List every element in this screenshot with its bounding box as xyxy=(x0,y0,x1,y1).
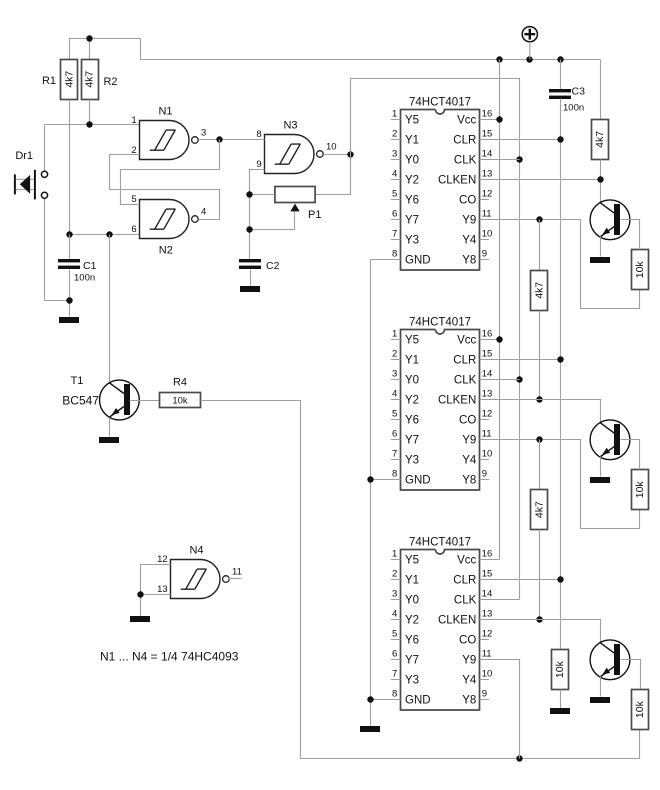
wire N2 output feedback to N1 pin 2 xyxy=(110,155,220,220)
junction CLR IC2 xyxy=(557,356,563,362)
svg-text:3: 3 xyxy=(201,128,206,139)
svg-text:Y9: Y9 xyxy=(462,215,476,227)
svg-text:15: 15 xyxy=(482,569,493,580)
svg-text:Y0: Y0 xyxy=(405,155,419,167)
svg-text:11: 11 xyxy=(482,209,492,220)
resistor 10k base Q3 xyxy=(632,690,649,730)
junction N3 output xyxy=(347,151,353,157)
wire 10k to Q2 base xyxy=(621,440,640,470)
svg-text:5: 5 xyxy=(392,629,397,640)
junction T1 collector branch xyxy=(106,231,112,237)
svg-text:R4: R4 xyxy=(173,377,187,389)
svg-text:Y1: Y1 xyxy=(405,355,419,367)
svg-text:6: 6 xyxy=(392,209,397,220)
wire P1 wiper down to RC node xyxy=(250,212,295,230)
wire Q2 emitter to ground xyxy=(600,457,602,477)
wire CLK pins to clock rail xyxy=(480,160,520,600)
wire stage rail A upper xyxy=(539,220,541,271)
svg-text:C3: C3 xyxy=(572,86,586,98)
svg-text:CLR: CLR xyxy=(453,135,476,147)
svg-text:10: 10 xyxy=(482,449,493,460)
svg-text:5: 5 xyxy=(131,194,136,205)
svg-text:12: 12 xyxy=(482,189,493,200)
junction CLKEN IC1 / Q1 collector xyxy=(597,176,603,182)
wire GND rail of ICs xyxy=(371,260,401,727)
wire N1 output feedback to N2 pin 5 xyxy=(121,140,220,205)
wire P1 left to RC node xyxy=(250,170,275,260)
ground under T1 xyxy=(99,437,119,443)
svg-text:R2: R2 xyxy=(103,76,117,88)
wire T1 collector riser xyxy=(109,235,111,383)
svg-text:N4: N4 xyxy=(189,545,203,557)
svg-text:13: 13 xyxy=(482,389,493,400)
junction GND IC3 xyxy=(367,696,373,702)
svg-text:7: 7 xyxy=(392,449,397,460)
wire CLR pulldown to ground xyxy=(560,690,562,709)
svg-text:CLK: CLK xyxy=(454,155,477,167)
svg-text:74HCT4017: 74HCT4017 xyxy=(409,97,471,109)
pushbutton Dr1 xyxy=(15,125,48,301)
svg-text:Vcc: Vcc xyxy=(457,335,476,347)
resistor 10k base Q1 xyxy=(632,250,649,290)
svg-text:13: 13 xyxy=(482,609,493,620)
wire Q3 base to 10k xyxy=(621,660,641,690)
svg-text:6: 6 xyxy=(392,649,397,660)
resistor 4k7 stage B xyxy=(531,490,548,530)
svg-text:4k7: 4k7 xyxy=(63,71,75,88)
svg-text:6: 6 xyxy=(131,224,136,235)
ground under Q1 xyxy=(590,257,610,263)
wire N1 output to N3 pin 8 xyxy=(199,139,265,141)
resistor 10k base Q2 xyxy=(632,470,649,510)
svg-text:R1: R1 xyxy=(42,75,56,87)
svg-text:CLR: CLR xyxy=(453,355,476,367)
wire R2 bottom to Dr1/N1 pin1 net xyxy=(45,100,140,125)
resistor 4k7 pullup Q1 xyxy=(592,120,609,160)
transistor Q3 xyxy=(590,640,630,680)
svg-text:GND: GND xyxy=(405,695,431,707)
wire C1 top xyxy=(69,235,71,260)
svg-text:4: 4 xyxy=(201,207,206,218)
ground under CLR pulldown xyxy=(550,708,570,714)
ground under GND rail xyxy=(360,726,380,732)
svg-text:10k: 10k xyxy=(634,700,646,718)
ground under Q2 xyxy=(590,477,610,483)
svg-text:12: 12 xyxy=(157,554,168,565)
svg-text:16: 16 xyxy=(482,549,493,560)
wire Y9 IC2 to Q2 base resistor xyxy=(480,440,640,529)
wire N4 output stub xyxy=(229,578,242,580)
svg-text:Y7: Y7 xyxy=(405,215,419,227)
svg-text:Y5: Y5 xyxy=(405,335,419,347)
wire C2 bottom to ground xyxy=(250,270,252,287)
wire clock net to CLK pins rail xyxy=(351,79,520,600)
svg-text:16: 16 xyxy=(482,329,493,340)
svg-text:CLKEN: CLKEN xyxy=(438,395,476,407)
wire CLKEN IC2 to Q2 collector xyxy=(480,400,601,423)
svg-text:CLK: CLK xyxy=(454,595,477,607)
op-gate N3 (Schmitt NAND) xyxy=(256,120,336,174)
junction GND IC2 xyxy=(367,476,373,482)
svg-text:Vcc: Vcc xyxy=(457,555,476,567)
svg-text:9: 9 xyxy=(482,469,487,480)
svg-text:C1: C1 xyxy=(83,260,97,272)
svg-text:3: 3 xyxy=(392,369,397,380)
svg-text:15: 15 xyxy=(482,349,493,360)
junction CLR IC3 xyxy=(557,576,563,582)
op-gate N1 (Schmitt NAND) xyxy=(131,106,206,160)
junction R2 bottom xyxy=(86,121,92,127)
transistor Q1 xyxy=(590,200,630,240)
svg-text:CLKEN: CLKEN xyxy=(438,175,476,187)
svg-text:Y6: Y6 xyxy=(405,415,419,427)
svg-text:4k7: 4k7 xyxy=(594,131,606,148)
wire CLR rail xyxy=(480,99,561,650)
svg-text:15: 15 xyxy=(482,129,493,140)
svg-text:1: 1 xyxy=(392,549,397,560)
svg-text:10: 10 xyxy=(482,669,493,680)
svg-text:Y3: Y3 xyxy=(405,675,419,687)
junction Y9 IC2 / stage rail B xyxy=(536,436,542,442)
svg-text:10k: 10k xyxy=(554,660,566,678)
svg-text:Y7: Y7 xyxy=(405,655,419,667)
svg-text:CLK: CLK xyxy=(454,375,477,387)
svg-text:74HCT4017: 74HCT4017 xyxy=(409,537,471,549)
capacitor C2 xyxy=(239,259,261,269)
svg-text:10k: 10k xyxy=(634,481,646,499)
wire CLKEN IC3 to Q3 collector xyxy=(480,620,601,643)
svg-text:Y8: Y8 xyxy=(462,255,476,267)
svg-text:14: 14 xyxy=(482,149,493,160)
svg-text:14: 14 xyxy=(482,589,493,600)
op-gate N4 (Schmitt NAND) xyxy=(157,545,242,599)
svg-text:Y5: Y5 xyxy=(405,555,419,567)
svg-text:T1: T1 xyxy=(71,375,84,387)
wire Q1 emitter to ground xyxy=(600,237,602,257)
svg-text:11: 11 xyxy=(232,567,242,578)
wire N3 output down to P1 right xyxy=(316,155,351,195)
svg-text:7: 7 xyxy=(392,229,397,240)
svg-text:9: 9 xyxy=(482,689,487,700)
svg-text:8: 8 xyxy=(392,469,397,480)
svg-text:8: 8 xyxy=(392,689,397,700)
svg-text:Y9: Y9 xyxy=(462,435,476,447)
junction P1 left / N3 pin 9 xyxy=(246,191,252,197)
ground under C2 xyxy=(240,286,260,292)
junction supply rail / + symbol stem xyxy=(526,56,532,62)
transistor Q2 xyxy=(590,420,630,460)
junction Vcc IC1 xyxy=(496,116,502,122)
svg-text:10: 10 xyxy=(482,229,493,240)
junction N4 pin13 xyxy=(137,591,143,597)
junction Y9 IC1 / stage rail A xyxy=(536,216,542,222)
wire N4 inputs tied to ground xyxy=(141,565,171,617)
capacitor C1 xyxy=(58,259,80,269)
svg-text:N3: N3 xyxy=(283,120,297,132)
svg-text:2: 2 xyxy=(392,129,397,140)
svg-text:GND: GND xyxy=(405,475,431,487)
svg-text:3: 3 xyxy=(392,149,397,160)
junction CLKEN IC3 / stage rail B xyxy=(536,616,542,622)
svg-text:N1: N1 xyxy=(158,106,172,118)
svg-text:GND: GND xyxy=(405,255,431,267)
svg-text:100n: 100n xyxy=(74,273,95,284)
svg-text:16: 16 xyxy=(482,109,493,120)
junction R2 top on +V wire xyxy=(86,35,92,41)
wire Vcc rail xyxy=(480,60,500,560)
svg-text:4: 4 xyxy=(392,169,397,180)
svg-text:Y3: Y3 xyxy=(405,235,419,247)
op-gate N2 (Schmitt NAND) xyxy=(131,194,206,256)
svg-text:Y0: Y0 xyxy=(405,375,419,387)
svg-text:Y5: Y5 xyxy=(405,115,419,127)
svg-text:Y7: Y7 xyxy=(405,435,419,447)
svg-text:7: 7 xyxy=(392,669,397,680)
svg-text:10k: 10k xyxy=(172,395,188,406)
power symbol + xyxy=(522,27,537,60)
wire CLKEN IC1 node xyxy=(480,160,601,203)
junction supply rail / C3 branch xyxy=(557,56,563,62)
svg-text:Y8: Y8 xyxy=(462,475,476,487)
wire +V feed to R1/R2 tops and top supply rail xyxy=(70,39,601,60)
wire C3 top from rail xyxy=(560,60,562,90)
svg-text:9: 9 xyxy=(256,159,261,170)
wire stage rail B lower xyxy=(539,530,541,620)
svg-text:8: 8 xyxy=(392,249,397,260)
svg-text:4k7: 4k7 xyxy=(84,71,96,88)
svg-text:10k: 10k xyxy=(634,261,646,279)
svg-text:Y6: Y6 xyxy=(405,195,419,207)
svg-text:11: 11 xyxy=(482,429,492,440)
op-ic U1 74HCT4017 (top) xyxy=(391,97,492,270)
svg-text:74HCT4017: 74HCT4017 xyxy=(409,317,471,329)
svg-text:11: 11 xyxy=(482,649,492,660)
svg-text:N1 ... N4 = 1/4 74HC4093: N1 ... N4 = 1/4 74HC4093 xyxy=(100,650,239,664)
svg-text:4k7: 4k7 xyxy=(534,501,546,518)
junction bottom rail / Y9 IC3 xyxy=(516,755,522,761)
junction CLKEN IC2 / stage rail A xyxy=(536,396,542,402)
svg-text:CO: CO xyxy=(459,635,476,647)
svg-text:8: 8 xyxy=(256,129,261,140)
svg-text:2: 2 xyxy=(392,569,397,580)
svg-text:CO: CO xyxy=(459,415,476,427)
op-ic U3 74HCT4017 (bottom) xyxy=(391,537,492,710)
resistor 4k7 stage A xyxy=(531,271,548,311)
resistor R4 xyxy=(160,393,201,408)
svg-text:6: 6 xyxy=(392,429,397,440)
junction wiper / C2 xyxy=(246,226,252,232)
svg-text:4k7: 4k7 xyxy=(534,282,546,299)
svg-text:4: 4 xyxy=(392,609,397,620)
svg-text:Y4: Y4 xyxy=(462,455,477,467)
svg-text:4: 4 xyxy=(392,389,397,400)
wire Y9 IC3 down to bottom rail xyxy=(480,660,520,759)
junction N1 output node xyxy=(216,136,222,142)
ground under N4 inputs xyxy=(130,616,150,622)
svg-text:Y6: Y6 xyxy=(405,635,419,647)
svg-text:5: 5 xyxy=(392,409,397,420)
svg-text:13: 13 xyxy=(157,584,168,595)
junction supply rail / Vcc rail xyxy=(496,56,502,62)
junction C1 bottom / Dr1 xyxy=(66,297,72,303)
svg-text:Dr1: Dr1 xyxy=(15,150,33,162)
wire R1 bottom down to C1 node xyxy=(69,100,71,235)
junction Vcc IC2 xyxy=(496,336,502,342)
svg-text:3: 3 xyxy=(392,589,397,600)
resistor 10k CLR pulldown xyxy=(552,650,569,690)
svg-text:N2: N2 xyxy=(159,244,173,256)
svg-text:Vcc: Vcc xyxy=(457,115,476,127)
svg-text:Y1: Y1 xyxy=(405,575,419,587)
svg-text:10: 10 xyxy=(326,142,337,153)
svg-text:14: 14 xyxy=(482,369,493,380)
svg-text:Y2: Y2 xyxy=(405,615,419,627)
ground under Q3 xyxy=(590,697,610,703)
wire N3 output node xyxy=(324,154,351,156)
svg-text:Y2: Y2 xyxy=(405,395,419,407)
svg-text:Y0: Y0 xyxy=(405,595,419,607)
svg-text:CLKEN: CLKEN xyxy=(438,615,476,627)
svg-text:100n: 100n xyxy=(563,103,584,114)
svg-text:Y4: Y4 xyxy=(462,675,477,687)
resistor R1 xyxy=(61,60,78,100)
svg-text:Y9: Y9 xyxy=(462,655,476,667)
svg-text:Y1: Y1 xyxy=(405,135,419,147)
svg-text:P1: P1 xyxy=(308,209,321,221)
svg-text:12: 12 xyxy=(482,629,493,640)
wire Y9 IC1 to Q1 base resistor xyxy=(480,220,640,309)
resistor R2 xyxy=(82,60,99,100)
svg-text:13: 13 xyxy=(482,169,493,180)
wire C1 node to N2 pin 6 xyxy=(70,234,140,236)
ground under C1 xyxy=(59,317,79,323)
svg-text:9: 9 xyxy=(482,249,487,260)
junction CLK IC1 xyxy=(516,156,522,162)
junction R1/C1 on pin6 net xyxy=(66,231,72,237)
wire 10k to Q1 base xyxy=(621,220,640,250)
svg-text:Y4: Y4 xyxy=(462,235,477,247)
svg-text:1: 1 xyxy=(392,329,397,340)
wire T1 base to R4 xyxy=(130,400,160,402)
svg-text:2: 2 xyxy=(392,349,397,360)
svg-text:Y8: Y8 xyxy=(462,695,476,707)
capacitor C3 xyxy=(549,89,571,99)
svg-text:C2: C2 xyxy=(266,260,280,272)
wire Q3 emitter to ground xyxy=(600,677,602,697)
wire C1 bottom / Dr1 bottom to ground xyxy=(45,270,70,317)
svg-text:CO: CO xyxy=(459,195,476,207)
svg-text:1: 1 xyxy=(131,115,136,126)
wire 4k7 pullup from supply rail xyxy=(600,60,602,120)
svg-text:12: 12 xyxy=(482,409,493,420)
wire T1 emitter to ground xyxy=(109,418,111,437)
op-ic U2 74HCT4017 (middle) xyxy=(391,317,492,490)
junction CLK IC2 xyxy=(516,376,522,382)
svg-text:Y2: Y2 xyxy=(405,175,419,187)
svg-text:BC547: BC547 xyxy=(62,394,99,408)
potentiometer P1 xyxy=(275,187,315,212)
svg-text:1: 1 xyxy=(392,109,397,120)
transistor T1 BC547 xyxy=(100,380,140,420)
wire stage rail A lower xyxy=(539,311,541,400)
wire stage rail B upper xyxy=(539,440,541,490)
svg-text:CLR: CLR xyxy=(453,575,476,587)
svg-text:Y3: Y3 xyxy=(405,455,419,467)
junction CLR IC1 / C3 xyxy=(557,136,563,142)
wire R4 to bottom rail to 10k of Q3 xyxy=(201,401,640,759)
svg-text:5: 5 xyxy=(392,189,397,200)
